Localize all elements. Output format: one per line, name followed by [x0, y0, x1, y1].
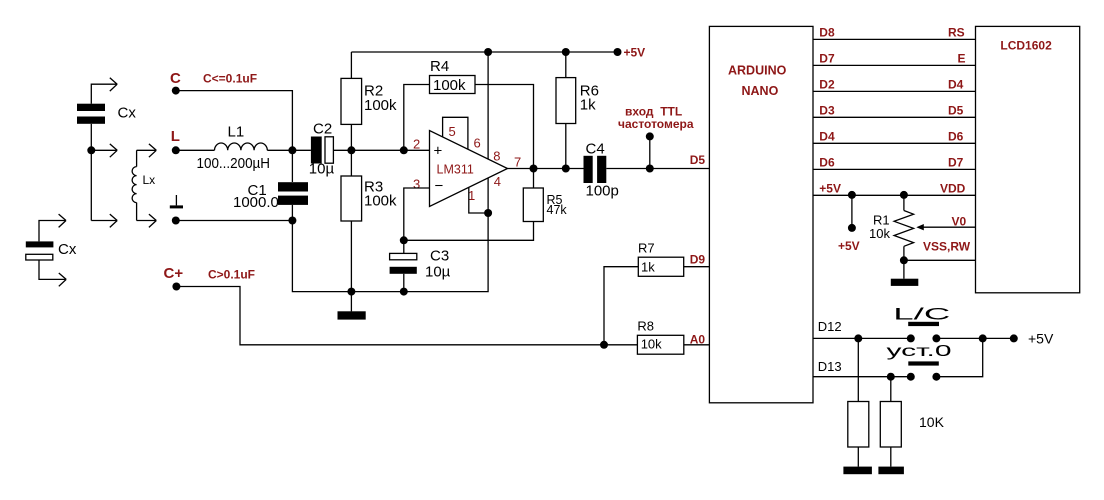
wire +5V stub — [851, 195, 853, 228]
svg-text:D6: D6 — [948, 129, 964, 143]
node pin3 C3 — [400, 236, 408, 244]
wire arrow Lx bottom — [137, 214, 157, 227]
resistor R5 — [404, 169, 544, 241]
wire pin3 to C3 — [404, 188, 430, 240]
svg-text:+5V: +5V — [1028, 331, 1054, 347]
svg-text:1k: 1k — [580, 96, 596, 113]
svg-text:Cx: Cx — [118, 105, 137, 122]
svg-text:1k: 1k — [641, 260, 655, 275]
svg-text:10k: 10k — [869, 226, 890, 241]
button L/C bar — [908, 322, 939, 326]
svg-text:3: 3 — [413, 177, 420, 192]
resistor R8 — [637, 335, 683, 354]
svg-text:NANO: NANO — [742, 84, 779, 98]
svg-text:2: 2 — [413, 137, 420, 152]
capacitor C1 — [278, 150, 308, 220]
terminal C — [172, 87, 180, 95]
node output TTL — [646, 165, 654, 173]
node C1 bottom rail — [288, 217, 296, 225]
capacitor C2 (polarized) — [292, 137, 351, 164]
node pin2 rail R2 — [347, 146, 355, 154]
svg-text:+5V: +5V — [819, 181, 841, 195]
svg-text:LCD1602: LCD1602 — [1000, 39, 1052, 53]
resistor pulldown D12 — [843, 338, 872, 474]
svg-text:D2: D2 — [819, 77, 835, 91]
svg-text:уст.0: уст.0 — [887, 343, 952, 360]
svg-text:VDD: VDD — [940, 181, 966, 195]
svg-text:10K: 10K — [919, 414, 945, 430]
wire R7 left — [604, 267, 638, 345]
button ust0 bar — [908, 361, 939, 365]
wire R8 right — [684, 344, 710, 346]
svg-text:L/C: L/C — [893, 305, 950, 323]
lcd box — [976, 26, 1080, 292]
wire arrow to C from Cx top — [91, 78, 117, 104]
svg-text:C2: C2 — [313, 121, 332, 138]
svg-text:D6: D6 — [819, 155, 835, 169]
ground R1 — [891, 260, 919, 286]
svg-text:47k: 47k — [547, 203, 568, 217]
wire pin4 down — [487, 178, 489, 213]
resistor R6 — [556, 52, 576, 169]
svg-text:L: L — [171, 128, 180, 145]
wire arrow Cx bottom to gnd — [39, 214, 66, 241]
wire C+ to A0 — [176, 287, 604, 345]
wire bus D2-D4 — [813, 90, 976, 92]
wire bus D8-RS — [813, 38, 976, 40]
wire R8 left — [604, 344, 637, 346]
node rail pin8 — [484, 48, 492, 56]
svg-text:R4: R4 — [430, 58, 449, 75]
wire TTL stub — [649, 136, 651, 168]
node D12 resistor tap — [854, 334, 862, 342]
svg-text:10µ: 10µ — [309, 161, 335, 178]
wire D13 line — [813, 338, 983, 376]
svg-text:Cx: Cx — [58, 241, 77, 258]
button ust0 contact right — [932, 373, 940, 381]
svg-text:+: + — [434, 142, 443, 159]
svg-text:6: 6 — [474, 136, 481, 151]
node pin2 R4 tap — [400, 146, 408, 154]
svg-text:частотомера: частотомера — [618, 117, 694, 131]
button L/C contact right — [932, 334, 940, 342]
svg-text:100k: 100k — [433, 77, 466, 94]
wire bus D7-E — [813, 64, 976, 66]
svg-text:ARDUINO: ARDUINO — [728, 64, 787, 78]
node output R4R5 — [530, 165, 538, 173]
wiper arrow V0 — [916, 224, 975, 230]
node left rail mid — [87, 146, 95, 154]
svg-text:D3: D3 — [819, 103, 835, 117]
node ground R3 — [347, 288, 355, 296]
wire output pin7 — [508, 168, 710, 170]
wire arrow rail bottom — [91, 214, 117, 227]
wire bus D6-D7 — [813, 168, 976, 170]
wire bottom input rail — [176, 220, 293, 222]
svg-text:D4: D4 — [948, 77, 964, 91]
svg-text:−: − — [435, 178, 444, 195]
svg-text:C: C — [170, 70, 181, 87]
wire +5V top rail — [351, 51, 617, 53]
svg-text:C<=0.1uF: C<=0.1uF — [203, 72, 257, 86]
button ust0 contact left — [907, 373, 915, 381]
svg-text:D7: D7 — [948, 155, 964, 169]
terminal gnd — [172, 217, 180, 225]
wire bus D3-D5 — [813, 116, 976, 118]
node vdd line left — [848, 191, 856, 199]
svg-text:D13: D13 — [818, 359, 842, 374]
wire R7 right — [684, 266, 710, 268]
svg-text:E: E — [958, 51, 966, 65]
svg-text:R8: R8 — [637, 319, 654, 334]
svg-text:D7: D7 — [819, 51, 835, 65]
svg-text:R7: R7 — [638, 240, 655, 255]
terminal +5V buttons — [1010, 334, 1018, 342]
svg-text:10µ: 10µ — [425, 263, 451, 280]
svg-text:D8: D8 — [819, 25, 835, 39]
terminal +5V top — [614, 48, 622, 56]
svg-text:100p: 100p — [586, 182, 619, 199]
svg-text:100k: 100k — [364, 97, 397, 114]
svg-text:D4: D4 — [819, 129, 835, 143]
svg-text:+5V: +5V — [624, 46, 646, 60]
node vdd line R1 — [900, 191, 908, 199]
svg-text:L1: L1 — [228, 123, 245, 140]
wire C terminal to node — [176, 91, 293, 151]
button L/C contact left — [907, 334, 915, 342]
svg-text:V0: V0 — [952, 214, 967, 228]
terminal L — [172, 146, 180, 154]
svg-text:D5: D5 — [948, 103, 964, 117]
arduino nano box — [709, 26, 813, 402]
resistor R4 — [430, 76, 476, 94]
svg-text:1000.0: 1000.0 — [233, 194, 279, 211]
terminal C+ — [172, 283, 180, 291]
wire bus D4-D6 — [813, 142, 976, 144]
svg-text:VSS,RW: VSS,RW — [923, 240, 971, 254]
svg-text:C3: C3 — [430, 247, 449, 264]
node pin1 pin4 — [484, 209, 492, 217]
svg-text:D5: D5 — [690, 153, 706, 167]
node D13 resistor tap — [887, 373, 895, 381]
node ground C3 — [400, 288, 408, 296]
op-amp U1 LM311 triangle — [430, 131, 508, 207]
svg-text:RS: RS — [948, 25, 965, 39]
wire D12 line — [813, 337, 1014, 339]
capacitor C4 — [584, 156, 607, 183]
terminal +5V stub — [848, 224, 856, 232]
svg-text:10k: 10k — [641, 337, 662, 352]
svg-text:Lx: Lx — [143, 173, 156, 187]
wire bus +5V-VDD — [813, 194, 976, 196]
wire +5V to pin8 — [487, 52, 489, 159]
ground terminal symbol — [170, 195, 183, 208]
resistor pulldown D13 — [878, 377, 904, 475]
wire arrow Cx bottom to C+ — [39, 260, 66, 286]
resistor R3 — [341, 150, 362, 291]
node rail R6 — [562, 48, 570, 56]
svg-text:C+: C+ — [164, 265, 184, 282]
capacitor Cx (bottom probe, polarized) — [26, 241, 54, 260]
node D12 corner — [979, 334, 987, 342]
svg-text:7: 7 — [514, 155, 521, 170]
node R1 bottom — [900, 256, 908, 264]
wire left rail — [90, 124, 92, 221]
wire arrow Lx top — [137, 144, 157, 157]
potentiometer R1 — [894, 195, 914, 260]
svg-text:LM311: LM311 — [437, 163, 474, 177]
wire arrow to L from rail — [91, 144, 117, 157]
node R7 R8 junction — [600, 341, 608, 349]
wire R4 left to pin2 node — [404, 85, 430, 151]
svg-text:C4: C4 — [586, 140, 605, 157]
wire R4 right to output — [475, 85, 534, 169]
op-amp strobe loop pins 5-6 — [443, 117, 468, 149]
svg-text:+5V: +5V — [838, 239, 860, 253]
resistor R7 — [638, 257, 683, 276]
inductor Lx (probe) — [132, 150, 137, 220]
svg-text:4: 4 — [494, 174, 501, 189]
wire ground rail — [292, 213, 488, 292]
capacitor Cx (top probe) — [77, 104, 105, 124]
wire pin2 line — [351, 149, 429, 151]
capacitor C3 — [390, 240, 417, 291]
svg-text:C>0.1uF: C>0.1uF — [208, 268, 255, 282]
svg-text:5: 5 — [449, 124, 456, 139]
svg-text:100k: 100k — [364, 193, 397, 210]
wire VSS RW — [904, 259, 976, 261]
wire pin1 down — [469, 187, 488, 213]
svg-text:8: 8 — [493, 149, 500, 164]
resistor R2 — [341, 52, 362, 150]
svg-text:A0: A0 — [690, 332, 706, 346]
terminal TTL input — [646, 132, 654, 140]
inductor L1 — [176, 143, 293, 150]
svg-text:D9: D9 — [690, 253, 706, 267]
ground main — [338, 292, 366, 320]
svg-text:100...200µH: 100...200µH — [197, 155, 271, 172]
node L1 right — [288, 146, 296, 154]
node output R6 — [562, 165, 570, 173]
svg-text:D12: D12 — [818, 319, 842, 334]
